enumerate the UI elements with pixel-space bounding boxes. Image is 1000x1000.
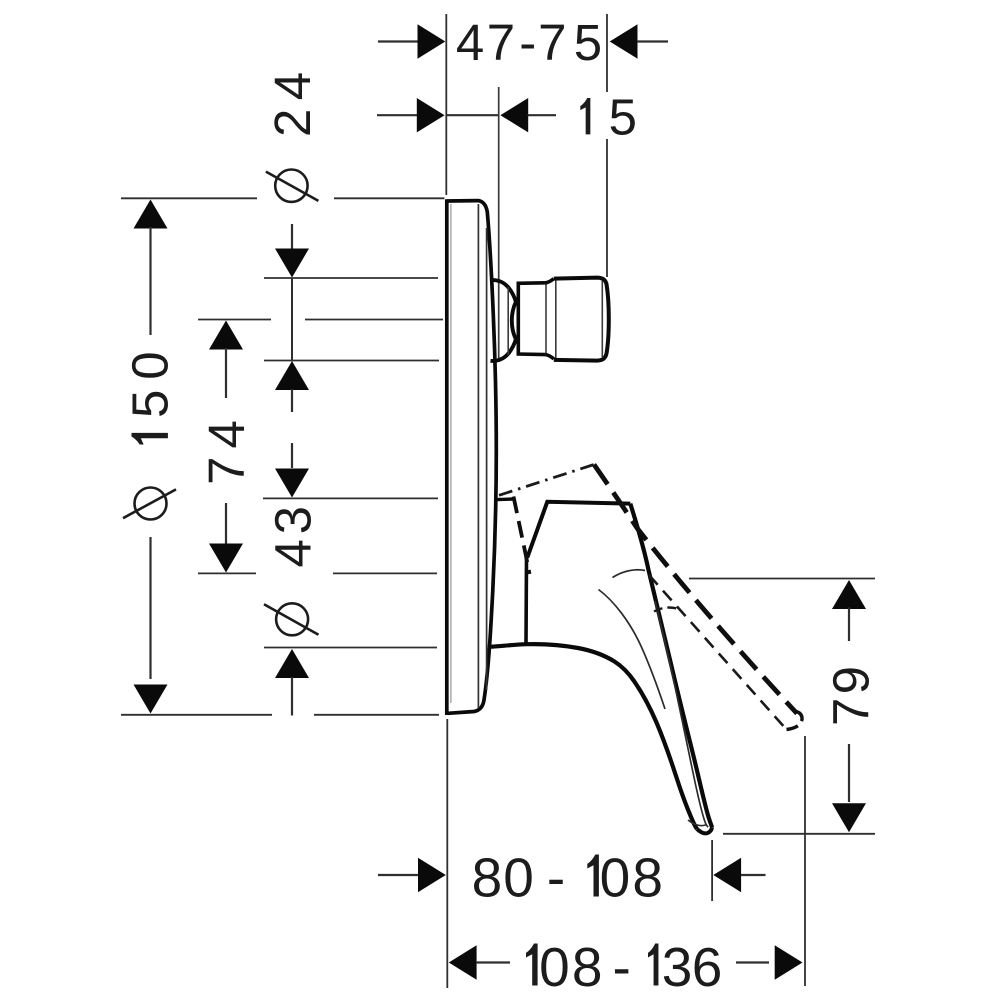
lever thin tip arc xyxy=(688,820,707,826)
label dia 150 (rotated digits) xyxy=(132,433,168,445)
knob mid piece xyxy=(517,283,547,355)
dashed handle: small base arc xyxy=(654,608,677,612)
dimension 79 vertical xyxy=(832,580,866,832)
wire: extension line y=498.5 (43 top) xyxy=(263,497,438,499)
wire: extension line x=805 xyxy=(804,736,806,986)
plate left (wall) edge xyxy=(445,199,449,715)
handle body outline xyxy=(527,502,630,558)
plate inner faint line xyxy=(450,204,452,703)
dashed handle: tip arc xyxy=(787,712,803,730)
knob cylinder inner thin line xyxy=(601,281,603,357)
svg-text:80-: 80- xyxy=(472,847,566,909)
dimension 43 vertical xyxy=(275,443,309,716)
wire: extension line y=715 (plate bottom, dia150) xyxy=(121,714,272,716)
handle bottom edge and lever left edge xyxy=(491,644,697,829)
handle body+lever right edge xyxy=(630,504,712,828)
wire: extension line x=447 below plate xyxy=(446,719,448,988)
wire: extension line y=198.5 (top of plate, dia150) xyxy=(121,197,257,199)
wire: extension line x=446 top xyxy=(445,14,447,195)
dimension dia150 vertical xyxy=(134,200,168,714)
wire: extension line x=607 upper xyxy=(606,14,608,92)
wire: extension line y=833.8 (79 bottom) xyxy=(723,833,875,835)
knob bell inner thin line xyxy=(507,287,509,355)
dimension 15 arrows xyxy=(377,98,556,132)
handle collar top edge xyxy=(498,497,515,501)
wire: extension line y=578.5 (79 top) xyxy=(689,578,875,580)
dimension 74 vertical xyxy=(209,321,243,573)
dashed handle: dash-dot riser xyxy=(499,465,594,496)
knob bell xyxy=(491,280,516,361)
wire: extension line y=360.5 (knob bottom, dia24) xyxy=(264,360,439,362)
wire: extension line y=278 (knob top, dia24) xyxy=(264,277,438,279)
svg-text:36: 36 xyxy=(662,936,723,998)
dia symbol of 150 xyxy=(123,488,176,520)
dimension 80-108 arrows xyxy=(378,858,766,892)
dashed handle: upper blade dashed line xyxy=(594,465,797,714)
wire: extension line x=712 xyxy=(711,840,713,901)
dashed handle: lower blade dashed line xyxy=(649,575,786,729)
dimension 108-136 arrows xyxy=(449,945,803,979)
wire: extension line x=498.5 xyxy=(498,87,500,362)
label 15 xyxy=(580,98,590,134)
lever inner thin line xyxy=(655,601,708,827)
knob cylinder xyxy=(554,278,609,361)
handle swoosh arc A xyxy=(613,570,646,578)
wire: extension line x=607 lower xyxy=(606,139,608,277)
wire: extension line y=647.5 (43 bottom) xyxy=(264,647,437,649)
dia symbol of 24 xyxy=(266,170,319,202)
wire: extension line y=573.5 (74 bottom) xyxy=(198,572,256,574)
escutcheon plate outline xyxy=(447,201,497,714)
lever tip arc xyxy=(697,827,712,833)
svg-text:08-: 08- xyxy=(539,936,631,998)
dimension dia24 vertical xyxy=(275,224,309,412)
knob step xyxy=(546,278,556,360)
handle body left edge xyxy=(524,557,528,644)
svg-text:5: 5 xyxy=(609,89,637,146)
plate face thin line 486 xyxy=(486,228,488,690)
wire: extension line y=319.5 (74 top) xyxy=(198,319,271,321)
svg-text:47-75: 47-75 xyxy=(456,14,602,71)
plate face thin line 478 xyxy=(477,204,479,708)
label 108 - 136 xyxy=(526,944,538,986)
dimension 47-75 arrows xyxy=(378,24,668,58)
dia symbol of 43 xyxy=(264,603,319,635)
dashed handle: left base dashes xyxy=(514,497,530,575)
handle swoosh arc B xyxy=(599,590,666,710)
